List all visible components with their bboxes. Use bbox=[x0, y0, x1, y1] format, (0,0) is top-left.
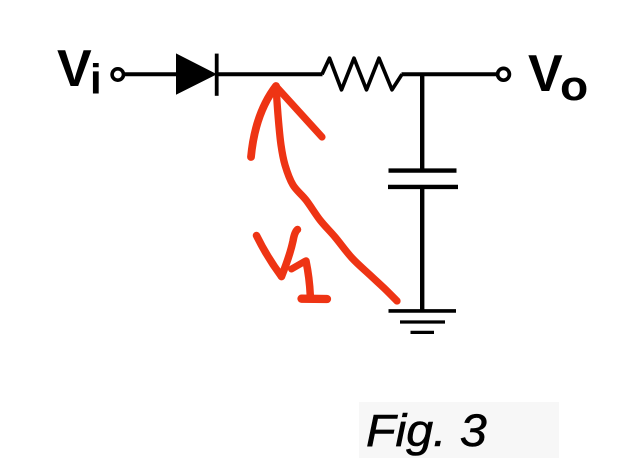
caption background box bbox=[359, 402, 559, 458]
node Vi label bbox=[57, 40, 102, 103]
output terminal (open circle) bbox=[498, 68, 510, 80]
svg-text:o: o bbox=[560, 63, 588, 110]
svg-text:i: i bbox=[90, 56, 102, 103]
capacitor C1 bbox=[388, 171, 458, 187]
caption: Fig. 3 bbox=[366, 406, 487, 456]
input terminal (open circle) bbox=[112, 69, 123, 80]
node Vo label bbox=[528, 45, 588, 110]
wire: diode cathode to resistor bbox=[217, 72, 323, 76]
wire: node down to capacitor top plate bbox=[420, 73, 424, 170]
wire: input terminal to diode anode bbox=[124, 72, 178, 76]
red label V1 bbox=[257, 230, 328, 300]
wire: capacitor bottom plate to ground bbox=[420, 186, 424, 312]
svg-text:V: V bbox=[57, 40, 92, 98]
svg-text:V: V bbox=[528, 45, 563, 103]
svg-text:Fig. 3: Fig. 3 bbox=[366, 406, 487, 456]
resistor R1 bbox=[322, 58, 402, 90]
diode D1 bbox=[177, 54, 219, 96]
wire: resistor to output terminal bbox=[402, 72, 497, 76]
red annotation arrow (curved, pointing at diode-resistor wire) bbox=[251, 86, 397, 301]
ground bbox=[389, 311, 457, 333]
